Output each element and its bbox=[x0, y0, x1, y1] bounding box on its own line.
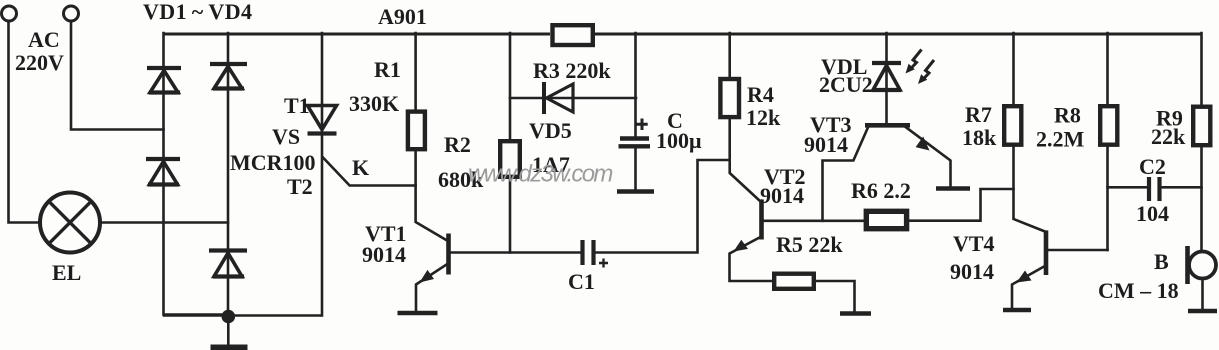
svg-text:12k: 12k bbox=[746, 105, 781, 130]
wire terminal2 down and right to bridge bbox=[71, 22, 164, 130]
svg-text:R6 2.2: R6 2.2 bbox=[851, 178, 911, 203]
ground main bbox=[211, 345, 248, 350]
svg-text:18k: 18k bbox=[962, 125, 997, 150]
svg-text:220V: 220V bbox=[15, 50, 64, 75]
resistor R4 bbox=[720, 79, 739, 117]
svg-text:R5 22k: R5 22k bbox=[776, 232, 843, 257]
svg-text:VT4: VT4 bbox=[953, 231, 995, 256]
svg-text:K: K bbox=[352, 155, 369, 180]
wire left bridge column bbox=[164, 33, 223, 315]
svg-text:100μ: 100μ bbox=[656, 128, 702, 153]
svg-text:R3 220k: R3 220k bbox=[533, 58, 611, 83]
resistor R3 (in rail) bbox=[553, 25, 593, 45]
transistor VT4 bbox=[1012, 230, 1046, 308]
capacitor C1 bbox=[583, 240, 609, 268]
svg-text:T2: T2 bbox=[287, 174, 313, 199]
transistor VT1 bbox=[416, 234, 449, 312]
microphone B bbox=[1188, 246, 1217, 309]
wire dot to ground bbox=[227, 323, 230, 345]
resistor R8 bbox=[1100, 106, 1117, 145]
svg-text:C1: C1 bbox=[568, 269, 595, 294]
ground VT3 bbox=[936, 186, 970, 191]
ground VT1 bbox=[398, 311, 438, 316]
thyristor VS bbox=[308, 106, 337, 134]
svg-text:www.dz3w.com: www.dz3w.com bbox=[468, 161, 612, 188]
svg-text:B: B bbox=[1154, 249, 1169, 274]
light arrows bbox=[906, 50, 935, 85]
resistor R2 column bbox=[509, 33, 512, 253]
diode VD2 bbox=[210, 64, 247, 89]
resistor R1 column bbox=[416, 33, 447, 241]
svg-text:VS: VS bbox=[272, 124, 300, 149]
lamp EL bbox=[40, 193, 100, 253]
diode VD5 bbox=[544, 82, 573, 114]
photodiode VDL column bbox=[885, 33, 888, 123]
resistor R9 bbox=[1193, 107, 1210, 146]
wire gate K to R1 node bbox=[323, 157, 416, 185]
wire VT2 base to R6 bbox=[764, 220, 865, 223]
resistor R4 column bbox=[730, 33, 761, 202]
thyristor VS column wire bbox=[321, 33, 324, 316]
svg-text:C2: C2 bbox=[1139, 154, 1166, 179]
svg-text:T1: T1 bbox=[284, 93, 310, 118]
terminal 1 (AC) bbox=[2, 6, 17, 21]
svg-text:2.2M: 2.2M bbox=[1036, 127, 1085, 152]
transistor VT3 bbox=[865, 125, 951, 186]
node: junction dot bottom bridge bbox=[222, 310, 236, 324]
svg-text:330K: 330K bbox=[349, 91, 399, 116]
svg-text:9014: 9014 bbox=[804, 132, 848, 157]
wire VT3 collector to VT2 base node bbox=[823, 127, 869, 221]
svg-text:104: 104 bbox=[1136, 201, 1169, 226]
svg-text:R1: R1 bbox=[374, 57, 401, 82]
resistor R5 bbox=[774, 274, 814, 289]
svg-text:R8: R8 bbox=[1054, 103, 1081, 128]
svg-text:AC: AC bbox=[28, 27, 60, 52]
svg-text:R7: R7 bbox=[965, 102, 992, 127]
resistor R7 column bbox=[1014, 33, 1046, 232]
transistor VT2 bbox=[730, 200, 773, 282]
wire R6 to R7/VT4 collector node bbox=[909, 189, 1014, 221]
wire C2 right bbox=[1162, 186, 1202, 189]
ground VT4 bbox=[1003, 308, 1031, 313]
svg-text:9014: 9014 bbox=[760, 183, 804, 208]
wire terminal1 down to lamp bbox=[9, 22, 40, 223]
svg-text:2CU2: 2CU2 bbox=[819, 72, 873, 97]
wire VT4 base to R8 column bbox=[1048, 249, 1108, 252]
photodiode VDL bbox=[872, 63, 901, 90]
svg-text:R4: R4 bbox=[747, 82, 774, 107]
resistor R8 column bbox=[1106, 33, 1109, 250]
svg-text:EL: EL bbox=[52, 260, 81, 285]
ground C bbox=[617, 189, 654, 194]
wire VD5 branch bbox=[510, 97, 636, 100]
ground mic bbox=[1188, 309, 1217, 314]
diode VD1 bbox=[147, 68, 181, 93]
wire C2 left bbox=[1108, 186, 1148, 189]
terminal 2 (AC) bbox=[64, 6, 79, 21]
ground R5 bbox=[840, 311, 871, 316]
resistor R7 bbox=[1004, 106, 1021, 145]
svg-text:VD5: VD5 bbox=[529, 118, 572, 143]
wire VT1 base to C1 bbox=[450, 251, 582, 254]
wire bottom return bbox=[164, 314, 321, 317]
capacitor C2 bbox=[1149, 177, 1160, 201]
svg-text:VD1 ~ VD4: VD1 ~ VD4 bbox=[143, 0, 252, 24]
svg-text:R2: R2 bbox=[444, 132, 471, 157]
resistor R9 column bbox=[1200, 33, 1203, 251]
capacitor C column bbox=[634, 33, 637, 189]
diode VD3 bbox=[146, 159, 180, 185]
svg-text:CM – 18: CM – 18 bbox=[1098, 278, 1179, 303]
svg-text:9014: 9014 bbox=[362, 242, 406, 267]
resistor R2 bbox=[500, 141, 520, 177]
svg-text:22k: 22k bbox=[1151, 124, 1186, 149]
wire R5 to ground bbox=[816, 281, 855, 312]
wire right bridge column bbox=[227, 33, 230, 311]
top supply rail bbox=[164, 33, 1203, 36]
resistor R1 bbox=[408, 112, 425, 150]
plus sign C bbox=[636, 119, 647, 131]
diode VD4 bbox=[209, 251, 247, 277]
resistor R6 bbox=[866, 211, 906, 228]
svg-text:MCR100: MCR100 bbox=[230, 150, 316, 175]
wire C1 to VT2 collector node bbox=[596, 160, 730, 253]
svg-text:A901: A901 bbox=[378, 4, 427, 29]
wire lamp to VD2/VD4 column bbox=[100, 221, 228, 224]
capacitor C plates bbox=[620, 136, 649, 140]
svg-text:9014: 9014 bbox=[950, 259, 994, 284]
